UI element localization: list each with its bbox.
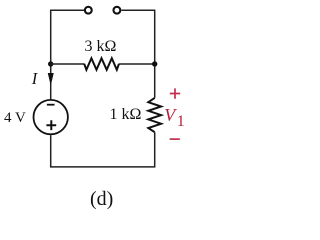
wire right vertical lower + bottom segment + stub to source bottom — [51, 132, 155, 167]
plus sign inside source — [46, 120, 56, 130]
red minus (V1 polarity) — [170, 138, 180, 140]
resistor 3 kOhm zigzag body — [84, 58, 119, 70]
svg-text:4 V: 4 V — [4, 110, 26, 126]
minus sign inside source — [47, 104, 55, 106]
resistor 1 kOhm (vertical zigzag) — [148, 98, 161, 132]
wire + resistor 3 kOhm (horizontal zigzag) — [51, 63, 155, 65]
svg-text:1 kΩ: 1 kΩ — [110, 106, 142, 123]
voltage source V=4V (circle) — [34, 100, 68, 134]
junction dot right node — [152, 61, 157, 66]
wire top-right segment + right vertical upper — [121, 10, 154, 98]
svg-text:V1: V1 — [164, 105, 184, 130]
svg-text:I: I — [31, 69, 39, 88]
terminal a (open circle, top left) — [85, 7, 92, 14]
terminal b (open circle, top right) — [114, 7, 121, 14]
red plus (V1 polarity) — [170, 88, 180, 98]
wire left vertical + top-left segment — [51, 10, 84, 99]
current arrow I (down) — [48, 73, 53, 84]
svg-text:(d): (d) — [90, 188, 113, 210]
junction dot left node — [48, 61, 53, 66]
svg-text:3 kΩ: 3 kΩ — [85, 38, 117, 55]
